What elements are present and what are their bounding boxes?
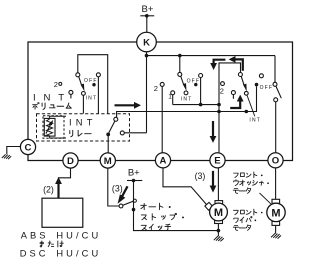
ground (washer motor) <box>271 233 281 238</box>
relay second contact (to K wire) <box>120 131 124 135</box>
svg-text:INT: INT <box>181 96 193 102</box>
junction dot at K wire / main feed <box>145 54 149 58</box>
wire contact 2 down to terminal A <box>161 86 163 152</box>
pointer line INT label to contact <box>247 95 255 116</box>
annotation arrow down (above E) <box>212 121 214 137</box>
terminal A <box>155 153 170 168</box>
terminal D <box>63 153 78 168</box>
junction dot B+ top <box>145 14 149 18</box>
wire contact 1 down <box>172 95 174 105</box>
left switch INT contact <box>82 92 86 96</box>
svg-text:B+: B+ <box>128 168 140 179</box>
wire from K down (x=146.5) to relay contact level <box>146 52 148 133</box>
svg-text:C: C <box>25 142 32 153</box>
wire B+ to terminal K <box>146 16 148 33</box>
junction dot E branch / relay wire <box>217 110 221 114</box>
svg-text:INT: INT <box>249 117 261 123</box>
middle switch OFF position dot <box>194 83 197 86</box>
left switch frame top wire <box>78 55 108 114</box>
label wiper3 <box>233 225 250 231</box>
junction dot auto-stop/ground wire <box>217 229 221 233</box>
svg-text:OFF: OFF <box>187 79 201 85</box>
wire y=104.6 (contact 1 / OFF to E branch) <box>173 104 219 106</box>
label matawa <box>40 241 63 247</box>
svg-text:A: A <box>160 156 167 167</box>
auto-stop blade <box>123 201 133 205</box>
ground (left of C) <box>2 154 11 159</box>
resistor leads <box>50 116 66 138</box>
left switch position-2 contact <box>59 82 62 85</box>
label wiper1 <box>234 209 263 215</box>
resistor zigzag <box>47 119 53 136</box>
INT relay dashed box <box>37 114 130 141</box>
wire left switch OFF contact down <box>97 77 99 114</box>
label washer3 <box>233 188 250 194</box>
wire left switch INT contact to relay box <box>82 95 84 113</box>
right switch top contact <box>238 73 242 77</box>
left switch pivot contact <box>76 73 80 77</box>
svg-text:(3): (3) <box>195 171 206 181</box>
svg-text:INT: INT <box>86 96 98 102</box>
annotation arrow (INT volume, pointing right) <box>115 104 135 106</box>
label auto1 <box>141 203 171 209</box>
svg-text:OFF: OFF <box>260 85 274 91</box>
svg-text:M: M <box>271 207 280 219</box>
wire main feed right drop to washer switch contact <box>274 56 276 83</box>
washer switch blade <box>276 86 281 98</box>
terminal E <box>210 153 225 168</box>
label washer1 <box>234 172 263 178</box>
wire E to wiper motor <box>217 168 219 201</box>
wire middle switch pivot drop <box>179 56 181 73</box>
relay fixed contact (from OFF wire) <box>114 117 118 121</box>
svg-text:INT: INT <box>33 92 72 103</box>
svg-text:2: 2 <box>54 80 58 89</box>
annotation arrow down (below E) <box>212 171 214 186</box>
auto-stop blade end contact <box>133 199 136 202</box>
B+ terminal tick (top) <box>140 15 154 17</box>
wire wiper motor to ground <box>217 224 219 237</box>
washer switch lower contact <box>274 98 278 102</box>
left switch blade with arrowhead <box>79 77 82 86</box>
wire middle switch OFF contact down <box>200 78 202 105</box>
annotation arrow up (2) <box>57 184 59 199</box>
relay moving-end junction dot <box>106 133 110 137</box>
right switch OFF position dot <box>255 83 259 87</box>
auto-stop fixed contact dot <box>132 208 136 212</box>
label washer2 <box>234 180 269 186</box>
annotation arrow left (top) <box>235 59 243 70</box>
svg-text:B+: B+ <box>142 4 154 15</box>
wire washer motor to ground <box>275 225 277 233</box>
middle switch pivot contact <box>178 72 182 76</box>
washer switch top contact <box>273 82 277 86</box>
svg-text:D: D <box>67 156 74 167</box>
svg-text:E: E <box>214 156 221 167</box>
right switch upper floating contact <box>259 74 263 78</box>
label auto2 <box>141 213 184 220</box>
auto-stop pivot contact <box>119 204 123 208</box>
annotation arrow (3) auto-stop <box>122 186 127 196</box>
svg-text:DSC HU/CU: DSC HU/CU <box>20 249 102 259</box>
ground (wiper motor) <box>214 236 224 241</box>
svg-text:OFF: OFF <box>84 78 98 84</box>
terminal C <box>20 139 35 154</box>
annotation arrow down (near K wire) <box>214 60 226 64</box>
pointer line washer label to motor <box>260 193 271 204</box>
junction dot B+ auto-stop <box>132 179 136 183</box>
relay blade <box>109 121 115 133</box>
left switch OFF position dot <box>92 83 95 86</box>
label volume <box>33 103 72 110</box>
svg-text:ABS HU/CU: ABS HU/CU <box>21 230 102 240</box>
terminal M <box>100 153 115 168</box>
right switch position-1 contact with tick <box>231 91 235 95</box>
wire washer switch to terminal O <box>275 102 277 153</box>
left switch position-1 contact with tick <box>69 90 73 94</box>
svg-text:2: 2 <box>220 86 224 95</box>
wire relay to terminal M <box>107 134 109 152</box>
INT volume dashed sub-box <box>43 116 64 139</box>
left switch OFF contact <box>96 73 100 77</box>
B+ terminal tick (auto-stop) <box>127 180 142 182</box>
annotation arrow up (right switch) <box>230 101 240 108</box>
svg-text:K: K <box>143 37 150 48</box>
middle switch INT contact <box>184 91 188 95</box>
middle switch blade with arrowhead <box>181 76 184 85</box>
wire D to ABS/DSC unit <box>59 168 71 198</box>
svg-text:M: M <box>214 207 223 219</box>
svg-text:(2): (2) <box>43 184 54 194</box>
wire O to washer motor <box>275 168 277 199</box>
right switch blade with arrowhead <box>241 76 244 85</box>
svg-text:2: 2 <box>154 84 158 93</box>
junction dot on relay wire <box>245 110 249 114</box>
right switch position-2 contact <box>221 82 225 86</box>
wire A to wiper motor left terminal <box>163 168 207 205</box>
wire C to ground <box>7 147 20 155</box>
wire main feed horizontal y=55.6 <box>147 55 276 57</box>
right switch INT contact <box>244 91 248 95</box>
svg-text:INT: INT <box>69 118 97 128</box>
junction dot main feed / middle switch pivot <box>178 54 182 58</box>
wire M to auto-stop pivot <box>108 168 119 206</box>
ABS/DSC unit box <box>42 198 83 227</box>
terminal K <box>137 32 157 52</box>
middle switch position-2 contact <box>160 82 164 86</box>
middle switch OFF contact <box>199 74 203 78</box>
wire E branch vertical <box>219 63 241 152</box>
svg-text:(3): (3) <box>112 183 123 193</box>
wire B+ down to contact <box>134 181 219 231</box>
resistor arrow <box>46 124 51 133</box>
wire relay feed y=111.5 <box>117 86 257 117</box>
wire K-branch to relay fixed contact <box>124 132 146 134</box>
label auto3 <box>141 224 170 230</box>
label relay <box>70 130 91 136</box>
washer motor M2 <box>267 199 285 225</box>
wiper/washer switch unit outer box <box>28 42 293 161</box>
middle switch position-1 contact <box>171 91 175 95</box>
terminal O <box>268 153 283 168</box>
label wiper2 <box>234 217 256 223</box>
wiper motor M1 <box>205 201 228 224</box>
svg-text:M: M <box>104 156 112 167</box>
svg-text:O: O <box>272 156 280 167</box>
variable resistor box <box>44 118 55 136</box>
junction dot at E branch <box>217 103 221 107</box>
junction dot OFF wire <box>199 103 203 107</box>
